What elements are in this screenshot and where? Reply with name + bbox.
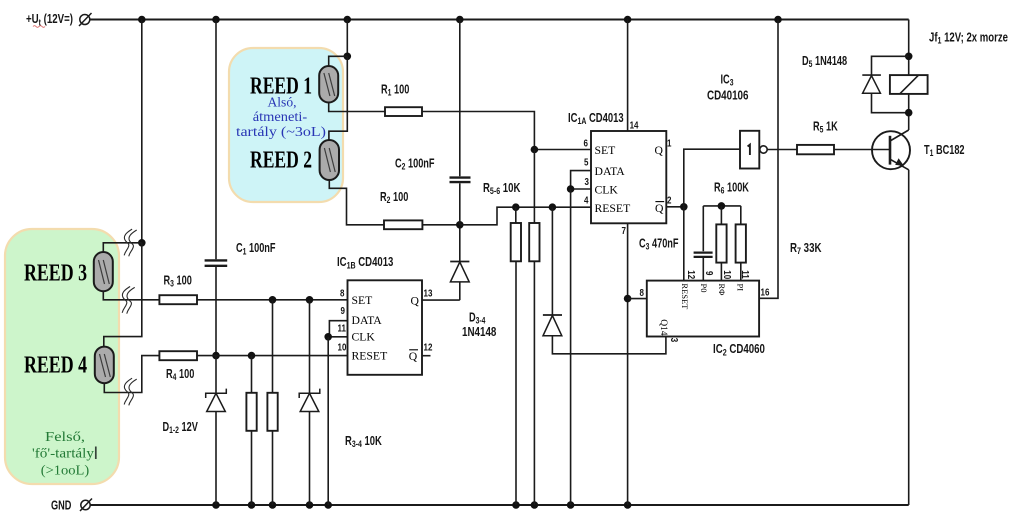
wire: node step up to IC1A RESET [460, 207, 591, 225]
node: rail junction x141 [138, 16, 146, 24]
node: reed3 feed junction [138, 239, 146, 247]
capacitor C1 100nF [205, 259, 228, 261]
svg-text:4: 4 [584, 195, 588, 206]
wire: IC1A clk to gnd [570, 189, 572, 505]
svg-text:C2 100nF: C2 100nF [395, 157, 435, 172]
wire: IC1A pin7 to gnd [627, 223, 629, 505]
wire: D3-4b to IC2 Q14 pin3 [552, 336, 666, 354]
wire: R3-4a to gnd [251, 431, 253, 505]
zener diode D1 (12V) [206, 389, 227, 398]
wire: C1 bottom to R4 row [215, 267, 217, 356]
resistor R5-6a 10K [511, 223, 521, 261]
svg-text:+Ut (12V=): +Ut (12V=) [26, 13, 73, 28]
svg-text:Q: Q [655, 144, 664, 157]
node: rail junction x347 [344, 16, 352, 24]
svg-text:Q: Q [409, 350, 418, 363]
svg-text:CD40106: CD40106 [707, 89, 748, 102]
wire: R1 right over and down to IC1A SET [422, 112, 591, 150]
svg-text:D1-2 12V: D1-2 12V [163, 421, 199, 436]
svg-text:C3 470nF: C3 470nF [639, 237, 679, 252]
node: IC1B data/clk junction [324, 333, 332, 341]
node: D2 tap [306, 296, 314, 304]
capacitor C2 100nF [450, 176, 471, 178]
inverter output bubble [760, 146, 767, 153]
svg-text:R3 100: R3 100 [164, 274, 192, 289]
reed switch REED1 [319, 66, 338, 103]
svg-text:6: 6 [584, 137, 588, 148]
pin 12 label rotated [686, 270, 697, 279]
node: rail junction x628 [624, 16, 632, 24]
wire: D5 bottom branch [872, 93, 909, 113]
label R1 100 [381, 83, 409, 98]
svg-text:RESET: RESET [680, 283, 690, 310]
wire: IC1A Qbar stub to node [666, 206, 684, 208]
svg-text:3: 3 [585, 176, 589, 187]
node: R5-6a tap on reset row [512, 203, 520, 211]
svg-text:REED 3: REED 3 [24, 260, 87, 287]
svg-text:IC2 CD4060: IC2 CD4060 [713, 343, 765, 358]
inverter gate IC3 [740, 131, 759, 169]
transistor T1 BC182 [872, 131, 910, 169]
svg-text:10: 10 [338, 342, 347, 353]
svg-text:13: 13 [424, 288, 433, 299]
svg-text:GND: GND [51, 499, 71, 513]
capacitor C3 470nF [694, 251, 713, 253]
pin 3 label [585, 176, 589, 187]
reed switch REED2 [320, 140, 339, 180]
wire: node to R6 [720, 206, 722, 225]
pin 14 label [630, 120, 639, 131]
svg-text:CLK: CLK [352, 331, 376, 344]
tank zone box (lower/transit tank, cyan) [229, 48, 343, 202]
reed switch REED4 [95, 347, 114, 384]
pin 9 label [341, 305, 345, 316]
node: relay bottom junction [905, 109, 913, 117]
diode D3-4a 1N4148 [459, 225, 461, 261]
wire: R5-6b to gnd [533, 261, 535, 505]
svg-text:R5 1K: R5 1K [813, 120, 838, 135]
wire: junction down to zener D1 [215, 356, 217, 394]
wire: relay bottom to collector [908, 94, 910, 130]
node: Qbar junction [680, 203, 688, 211]
svg-text:R7 33K: R7 33K [790, 242, 822, 257]
svg-text:DATA: DATA [595, 165, 626, 178]
wire: REED1 bottom to R1 [329, 103, 385, 112]
label CD40106 [707, 89, 748, 102]
node: R3-4b tap [269, 296, 277, 304]
wire: IC2 pin8 stub [628, 298, 647, 300]
svg-text:CLK: CLK [595, 183, 619, 196]
svg-text:11: 11 [740, 270, 751, 278]
wire: R3-4b to gnd [272, 431, 274, 505]
svg-text:12: 12 [686, 270, 697, 279]
svg-text:Felső,: Felső, [45, 430, 85, 445]
svg-text:'fő'-tartály: 'fő'-tartály [32, 447, 94, 462]
label IC1B CD4013 [337, 256, 393, 271]
svg-text:SET: SET [595, 144, 616, 157]
wire: IC1B Q13 to diode D3-4a [422, 299, 460, 301]
svg-text:R1 100: R1 100 [381, 83, 409, 98]
label Jf1 12V; 2x morze [929, 31, 1008, 46]
node: R3-4a tap [248, 352, 256, 360]
svg-text:16: 16 [761, 287, 770, 298]
label IC3 [721, 73, 734, 88]
label C2 100nF [395, 157, 435, 172]
svg-text:12: 12 [424, 342, 433, 353]
IC2 counter box CD4060 [647, 281, 759, 337]
wire: drop from rail to C2 [459, 20, 461, 177]
pin 8 label [640, 287, 644, 298]
cable squiggle s3 [124, 378, 137, 405]
wire: Qbar node down to IC2 pin12 [683, 207, 685, 281]
pin 1 label [667, 137, 671, 148]
wire: emitter down to gnd rail [908, 170, 910, 505]
resistor R4 100 [159, 351, 197, 360]
svg-text:1: 1 [667, 137, 671, 148]
label IC2 CD4060 [713, 343, 765, 358]
label R7 33K [790, 242, 822, 257]
svg-text:SET: SET [352, 294, 373, 307]
svg-text:R3-4 10K: R3-4 10K [345, 435, 382, 450]
svg-text:R2 100: R2 100 [380, 191, 408, 206]
wire: ground bottom rail [91, 504, 909, 506]
label R6 100K [714, 181, 749, 196]
svg-text:C1 100nF: C1 100nF [236, 242, 276, 257]
wire: IC1B clk to gnd [327, 337, 329, 505]
cable squiggle s1 [124, 229, 137, 256]
+12V supply terminal [80, 15, 90, 25]
wire: feed to REED1 top [329, 56, 348, 66]
svg-text:PI: PI [735, 284, 745, 292]
svg-text:10: 10 [722, 270, 733, 279]
svg-text:RESET: RESET [595, 202, 631, 215]
oscillator node row wire [703, 205, 741, 207]
svg-text:8: 8 [640, 287, 644, 298]
wire: reset tap down to R5-6a [515, 207, 517, 223]
resistor R1 100 [385, 107, 422, 116]
wire: feed down and over to REED4 top [104, 243, 142, 347]
wire: REED4 bottom up to R4 [104, 356, 159, 393]
svg-text:(>1ooL): (>1ooL) [41, 464, 90, 479]
wire: tap down to resistor R3-4a [251, 356, 253, 393]
reed switch REED3 [94, 252, 113, 291]
label D1-2 12V [163, 421, 199, 436]
IC1A flip-flop box CD4013 [591, 131, 666, 223]
label C3 470nF [639, 237, 679, 252]
wire: R3 to IC1B SET with taps [197, 299, 348, 301]
emitter lead with arrow [890, 159, 909, 170]
pin 11 label [338, 323, 346, 334]
svg-text:8: 8 [340, 288, 344, 299]
wire: IC1B DATA loop to CLK [329, 321, 347, 337]
wire: drop from rail to reed3 feed [141, 20, 143, 243]
svg-text:3: 3 [669, 338, 680, 342]
label R3 100 [164, 274, 192, 289]
wire: C3 to IC2 pin9 [702, 258, 704, 281]
svg-text:11: 11 [338, 323, 346, 334]
wire: IC2 pin16 to VDD riser [759, 20, 778, 299]
resistor R7 33K [736, 224, 746, 262]
collector lead [890, 130, 909, 141]
node: gnd junction R5-6b [531, 501, 539, 509]
svg-text:Q: Q [411, 295, 420, 308]
svg-text:DATA: DATA [352, 314, 383, 327]
node: gnd junction R3-4a [248, 501, 256, 509]
wire: tap down to resistor R3-4b [272, 300, 274, 393]
relay coil Jf1 [890, 75, 928, 94]
node: pin7/pin8 junction [624, 295, 632, 303]
node: IC1A data/clk junction [567, 185, 575, 193]
wire: D1 to gnd [215, 412, 217, 506]
resistor R5-6b 10K [529, 223, 539, 261]
svg-text:Q14: Q14 [658, 319, 668, 336]
svg-text:IC1B CD4013: IC1B CD4013 [337, 256, 393, 271]
resistor R6 100K [716, 224, 726, 262]
svg-text:5: 5 [584, 157, 588, 168]
label D5 1N4148 [802, 55, 847, 70]
wire: D5 top branch [872, 56, 909, 75]
IC1B flip-flop box CD4013 [348, 280, 423, 375]
label R5-6 10K [483, 182, 520, 197]
node: gnd junction IC pins 7/8 [624, 501, 632, 509]
svg-text:P0: P0 [699, 284, 709, 293]
svg-text:R5-6 10K: R5-6 10K [483, 182, 520, 197]
wire: IC1A CLK stub [571, 188, 591, 190]
label T1 BC182 [924, 144, 965, 159]
svg-text:REED 4: REED 4 [24, 352, 87, 379]
wire: C2 bottom to R2 node [459, 183, 461, 225]
wire: REED3 bottom to R3 [103, 291, 159, 300]
spellcheck squiggle under Ut [33, 26, 45, 28]
label D3-4 [469, 311, 486, 326]
wire: R6 to IC2 pin10 [720, 263, 722, 281]
node: rail junction x216 [212, 16, 220, 24]
wire: IC1B Q-bar stub pin12 [422, 355, 431, 357]
label C1 100nF [236, 242, 276, 257]
wire: Qbar node up to inverter input [684, 149, 740, 207]
node: C1/R4/D1 junction [212, 352, 220, 360]
resistor R3-4b 10K [267, 393, 277, 431]
pin 7 label [622, 225, 626, 236]
resistor R5 1K [797, 145, 834, 154]
node: gnd junction IC1B clk [324, 501, 332, 509]
node: R2/C2/D3-4a junction [456, 221, 464, 229]
wire: inverter output to R5 [767, 149, 797, 151]
wire: node to R7 [740, 206, 742, 225]
diode D5 1N4148 (flyback) [862, 74, 881, 76]
wire: IC1A pin14 to rail [627, 20, 629, 132]
label R4 100 [166, 368, 194, 383]
svg-text:R6 100K: R6 100K [714, 181, 749, 196]
wire: R2 to C2 node [422, 224, 459, 226]
ground label GND [51, 499, 71, 513]
wire: R4 to IC1B RESET with taps [197, 355, 348, 357]
node: reed1 feed junction [344, 53, 352, 61]
svg-text:IC1A CD4013: IC1A CD4013 [568, 112, 624, 127]
svg-text:9: 9 [341, 305, 345, 316]
svg-text:REED 2: REED 2 [250, 147, 312, 174]
svg-text:R4 100: R4 100 [166, 368, 194, 383]
wire: set junction down to R5-6b [533, 150, 535, 224]
pin 16 label [761, 287, 770, 298]
wire: R7 to IC2 pin11 [740, 263, 742, 281]
pin 10 label rotated [722, 270, 733, 279]
svg-text:2: 2 [667, 195, 671, 206]
svg-text:átmeneti-: átmeneti- [253, 110, 308, 125]
label R3-4 10K [345, 435, 382, 450]
zener diode D2 (12V) [299, 389, 320, 398]
svg-text:Q: Q [655, 202, 664, 215]
wire: D2 to gnd [309, 412, 311, 506]
resistor R3-4a 10K [246, 393, 256, 431]
pin 10 label [338, 342, 347, 353]
wire: drop from rail to C1 [215, 20, 217, 260]
wire: rail corner down to relay [908, 20, 910, 76]
svg-text:9: 9 [704, 271, 715, 275]
node: gnd junction R5-6a [512, 501, 520, 509]
wire: +12V top rail [90, 19, 909, 21]
wire: feed down and over to REED2 top [329, 56, 347, 140]
wire: IC1A DATA loop to CLK [571, 171, 591, 189]
svg-text:14: 14 [630, 120, 639, 131]
svg-text:Jf1 12V; 2x morze: Jf1 12V; 2x morze [929, 31, 1008, 46]
pin 3 label rotated [669, 338, 680, 342]
svg-text:RESET: RESET [352, 350, 388, 363]
label IC1A CD4013 [568, 112, 624, 127]
node: R1/SET/R5-6b junction [531, 146, 539, 154]
resistor R2 100 [384, 220, 422, 229]
node: rail junction x460 [456, 16, 464, 24]
pin 8 label [340, 288, 344, 299]
node: gnd junction D1 [212, 501, 220, 509]
pin 12 label [424, 342, 433, 353]
wire: feed to REED3 top [103, 243, 142, 252]
pin 6 label [584, 137, 588, 148]
wire: node down to C3 [702, 206, 704, 251]
pin 11 label rotated [740, 270, 751, 278]
supply label +Ut (12V=) [26, 13, 73, 28]
pin 2 label [667, 195, 671, 206]
pin 5 label [584, 157, 588, 168]
diode D3-4b 1N4148 [551, 207, 553, 315]
GND terminal [81, 500, 90, 509]
svg-text:tartály (~3oL): tartály (~3oL) [236, 125, 326, 140]
svg-text:RΦ: RΦ [717, 284, 727, 296]
wire: drop from rail to reed1 [346, 20, 348, 57]
node: gnd junction IC1A clk [567, 501, 575, 509]
node: gnd junction D2 [306, 501, 314, 509]
node: D3-4b tap on reset row [549, 203, 557, 211]
label R2 100 [380, 191, 408, 206]
node: relay top junction [905, 53, 913, 61]
tank zone box (upper/main tank, green) [5, 229, 119, 484]
svg-text:1N4148: 1N4148 [462, 326, 496, 339]
wire: R5 to transistor base [834, 149, 889, 151]
svg-text:7: 7 [622, 225, 626, 236]
pin 9 label rotated [704, 271, 715, 275]
annotation lower tank (blue) [236, 95, 326, 140]
label R5 1K [813, 120, 838, 135]
label 1N4148 [462, 326, 496, 339]
annotation upper tank (green) [32, 430, 96, 479]
wire: R5-6a to gnd [515, 261, 517, 505]
wire: IC1B CLK stub [328, 336, 347, 338]
svg-text:Alsó,: Alsó, [268, 95, 297, 110]
node: gnd junction R3-4b [269, 501, 277, 509]
pin 13 label [424, 288, 433, 299]
pin 4 label [584, 195, 588, 206]
node: rail junction x778 [774, 16, 782, 24]
wire: REED2 bottom to R2 [329, 180, 384, 225]
cable squiggle s2 [122, 287, 135, 314]
resistor R3 100 [159, 295, 197, 304]
wire: tap down to zener D2 [309, 300, 311, 394]
node: R6 top junction [718, 202, 726, 210]
